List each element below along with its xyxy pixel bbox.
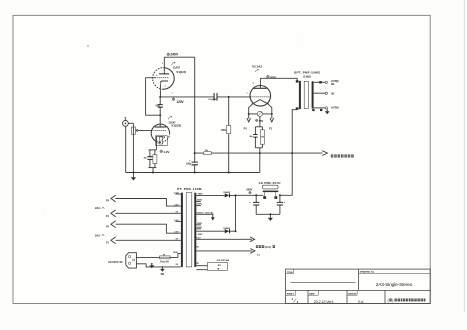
svg-text:2: 2 <box>156 75 157 77</box>
wire heater 6.3V arrow <box>196 237 254 242</box>
wire heater 0V arrow <box>196 249 255 254</box>
border frame <box>13 15 430 303</box>
node choke output <box>279 194 281 196</box>
svg-text:120V: 120V <box>176 100 184 104</box>
svg-text:2A3-: 2A3- <box>95 206 101 210</box>
resistor/capacitor 2A3 cathode <box>249 127 264 173</box>
node B+ junction <box>194 152 196 154</box>
title block label DRAWING No <box>359 271 431 274</box>
jack input <box>123 117 129 126</box>
wire OPT secondary 8 ohm <box>314 81 328 83</box>
svg-text:R11: R11 <box>218 265 221 267</box>
wire 0V center tap arrow <box>196 214 214 220</box>
wire 180V stub <box>196 205 201 207</box>
capacitor filter output <box>277 195 286 214</box>
svg-text:65V: 65V <box>259 119 264 123</box>
wire AC neutral <box>136 264 181 267</box>
svg-text:OPT: PMF-10WS: OPT: PMF-10WS <box>294 71 320 75</box>
svg-text:1: 1 <box>247 93 248 95</box>
svg-text:AC100V IN: AC100V IN <box>108 260 123 264</box>
wire 200V stub <box>196 201 201 203</box>
wire HV 220V bottom with diode <box>196 227 235 233</box>
wire filament F4 arrow <box>247 114 251 122</box>
resistor 250k grid <box>221 97 231 174</box>
label 240V <box>167 53 179 57</box>
potentiometer VR hum box <box>156 136 168 146</box>
svg-text:2A3-Single-Stereo: 2A3-Single-Stereo <box>376 282 413 287</box>
node filament left <box>248 113 250 115</box>
resistor box aux <box>208 259 230 271</box>
transformer PT PMC-190M <box>177 187 202 267</box>
label V2 2A3 <box>252 64 262 72</box>
label to 2A3 filament <box>256 245 275 249</box>
svg-text:8Ω: 8Ω <box>331 84 334 86</box>
label 65V <box>255 119 263 123</box>
svg-text:PT: PMC-190M: PT: PMC-190M <box>177 187 202 191</box>
svg-text:180V: 180V <box>197 223 202 225</box>
title block outline <box>286 269 431 303</box>
transformer OPT PMF-10WS <box>294 71 320 110</box>
wire aux winding leads <box>196 266 207 270</box>
svg-text:DCF 5871-AM: DCF 5871-AM <box>217 259 230 262</box>
node filament right <box>271 113 273 115</box>
tube V2 2A3 <box>247 78 272 114</box>
svg-text:1.2V: 1.2V <box>163 150 169 154</box>
svg-text:CH PMC-817H: CH PMC-817H <box>259 181 281 185</box>
capacitor filter input <box>249 195 259 214</box>
label to right channel <box>331 154 354 157</box>
svg-text:200V: 200V <box>197 200 202 202</box>
label 12AX7 V1(1/2) <box>172 62 186 74</box>
wire OPT primary to choke <box>280 110 297 196</box>
wire jack tip <box>128 122 133 124</box>
label 265V <box>267 75 277 79</box>
potentiometer volume <box>131 123 151 172</box>
svg-text:OUT(4): OUT(4) <box>331 106 339 109</box>
ground filter <box>268 213 273 221</box>
wire B+ distribution <box>195 152 323 154</box>
wire F4 to 2.5V tap 2 <box>116 224 181 233</box>
svg-text:50µ: 50µ <box>156 105 161 108</box>
label sheet 1/1 <box>292 297 299 304</box>
node coupling junction <box>228 96 230 98</box>
svg-text:100V: 100V <box>173 252 178 254</box>
label to 2A3 heater B <box>95 234 104 238</box>
label company <box>388 298 426 302</box>
svg-text:Fuse 3A: Fuse 3A <box>160 261 169 264</box>
choke CH PMC-817H <box>259 181 281 199</box>
wire ground bus <box>126 172 260 174</box>
ground <box>131 172 136 181</box>
label 120V <box>172 97 184 104</box>
tube V1(1/2) <box>146 57 175 97</box>
wire OPT secondary common <box>312 107 327 111</box>
svg-text:F4: F4 <box>244 126 248 130</box>
title underline <box>290 282 355 284</box>
svg-text:4Ω: 4Ω <box>331 92 334 95</box>
tube V1(2/2) <box>151 115 169 150</box>
node plate/cathode junction <box>159 96 161 98</box>
svg-text:220V: 220V <box>198 194 203 196</box>
wire F1 to 0V tap 2 <box>116 239 181 241</box>
svg-text:3: 3 <box>165 86 166 88</box>
svg-text:(2A3): (2A3) <box>265 245 271 249</box>
title block label DESIGN <box>347 290 357 295</box>
svg-text:12AX7: 12AX7 <box>173 66 181 69</box>
wire 2A3 plate to OPT <box>260 78 297 81</box>
title block label SHEET <box>286 290 296 295</box>
wire arrow F4 top <box>111 195 116 202</box>
svg-text:): ) <box>392 298 393 302</box>
wire arrow F4 bottom <box>111 221 116 228</box>
svg-text:2.5V: 2.5V <box>174 232 179 234</box>
wire grid feedback V1(1/2) <box>146 78 160 116</box>
svg-text:V1(1/2): V1(1/2) <box>176 70 186 74</box>
title block row divider <box>286 289 431 291</box>
wire arrow F1 top <box>111 210 116 217</box>
svg-text:2.5V: 2.5V <box>174 205 179 207</box>
fuse F1 3A <box>160 254 171 263</box>
node 2A3 cathode crossing <box>259 152 261 154</box>
svg-text:20.2.15 Ver1: 20.2.15 Ver1 <box>314 300 334 304</box>
wire rectifier output to choke <box>236 194 264 196</box>
svg-text:6.3V: 6.3V <box>174 220 179 222</box>
wire AC hot <box>136 253 181 257</box>
capacitor decoupling 100u <box>186 153 198 172</box>
ground plug <box>149 263 154 268</box>
label 12AX7 V1(2/2) <box>168 116 181 128</box>
node decoupling to bus <box>194 172 196 174</box>
node diode bottom <box>235 230 237 232</box>
svg-text:200V: 200V <box>197 227 202 229</box>
title block label DATE <box>308 290 318 295</box>
svg-text:6.3V: 6.3V <box>174 193 179 195</box>
svg-text:750: 750 <box>261 137 264 139</box>
svg-text:100µ: 100µ <box>186 163 192 165</box>
title block column dividers <box>308 290 385 303</box>
scan specks <box>87 45 89 47</box>
svg-text:250k: 250k <box>221 130 227 132</box>
wire rectifier bus <box>235 195 237 231</box>
svg-text:180V: 180V <box>197 204 202 206</box>
svg-text:220V: 220V <box>198 234 203 236</box>
svg-text:0V(DC 190mA): 0V(DC 190mA) <box>197 211 214 214</box>
resistor/capacitor V1 cathode RC <box>144 150 157 173</box>
label to 2A3 heater A <box>95 206 104 210</box>
wire F4 to 2.5V tap <box>116 199 181 207</box>
wire filament F1 arrow <box>270 114 274 122</box>
wire arrow to right channel <box>322 151 327 156</box>
svg-text:V1(2/2): V1(2/2) <box>171 124 181 128</box>
wire 200V stub 2 <box>196 228 201 230</box>
label 1.2V <box>160 150 170 154</box>
wire signal to 2A3 grid <box>160 96 250 98</box>
svg-text:(2.5kΩ): (2.5kΩ) <box>303 76 311 78</box>
node choke input <box>255 194 257 196</box>
wire arrow F1 bottom <box>111 237 116 244</box>
label 300V <box>246 188 252 194</box>
wire OPT secondary 4 ohm <box>314 92 328 94</box>
title block divider <box>358 269 360 290</box>
svg-text:240V: 240V <box>170 53 179 57</box>
node junction grid/plate <box>159 114 161 116</box>
wire 180V stub 2 <box>196 224 201 226</box>
svg-text:1N4007: 1N4007 <box>223 191 231 194</box>
paper edge <box>463 0 465 312</box>
svg-text:1N4007: 1N4007 <box>223 227 231 230</box>
potentiometer hum balance <box>249 111 272 127</box>
node B+ tap <box>291 152 293 154</box>
ground OPT secondary <box>325 109 330 114</box>
svg-text:2: 2 <box>253 83 254 85</box>
capacitor coupling 0.1u <box>208 93 218 101</box>
capacitor 50u cathode <box>156 97 163 115</box>
node RC to bus <box>152 172 154 174</box>
svg-text:DATE: DATE <box>309 292 315 295</box>
node B+ 240V rail <box>164 56 194 58</box>
wire HV 220V top with diode <box>196 191 235 198</box>
svg-text:6.3V: 6.3V <box>196 238 201 240</box>
ground chassis AC <box>160 266 165 275</box>
svg-text:300V: 300V <box>246 188 252 192</box>
title block label TITLE <box>286 269 294 274</box>
svg-text:V2 2A3: V2 2A3 <box>252 64 262 68</box>
svg-text:E.A.: E.A. <box>358 300 364 304</box>
wire filter cap bottom <box>256 213 280 215</box>
svg-text:0.1µ/630V: 0.1µ/630V <box>208 99 218 101</box>
resistor dropping B+ <box>204 150 211 154</box>
svg-text:OUT(8): OUT(8) <box>331 81 339 83</box>
wire F1 to 0V tap <box>116 212 181 214</box>
wire heater 6.3V stub 2 <box>175 220 181 222</box>
wire B+ vertical to dropping network <box>194 57 196 153</box>
wire jack sleeve <box>125 126 127 172</box>
node diode top <box>235 194 237 196</box>
wire heater 6.3V stub <box>175 193 181 195</box>
plug AC100V <box>126 253 137 268</box>
svg-text:2A3-: 2A3- <box>95 234 101 238</box>
